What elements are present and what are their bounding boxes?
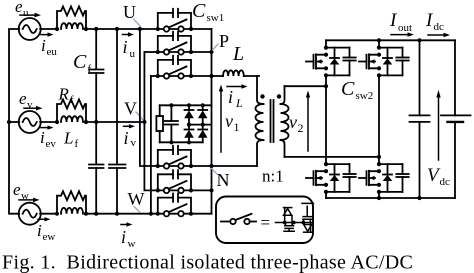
node w W-bus [149,212,153,216]
svg-text:i: i [124,128,129,148]
inductor L [212,70,260,76]
MOSFET cell Q4 [359,162,409,194]
battery V_dc [441,40,471,198]
arrow v1 [219,85,240,153]
wire clamp mid rail [189,124,212,126]
arrow i_ew [37,217,55,243]
svg-text:V: V [124,99,137,119]
clamp resistor [156,105,163,142]
svg-text:e: e [13,180,21,199]
arrow i_eu [41,32,57,58]
wire U drop to row4 [140,29,158,166]
arrow i_L [227,84,248,110]
svg-text:ev: ev [46,138,57,150]
svg-text:dc: dc [440,176,451,188]
wire secondary top [285,85,327,87]
svg-text:C: C [192,0,206,22]
label node W [128,189,145,212]
label I_out with arrow [389,10,414,37]
svg-text:I: I [389,10,398,31]
node N row5 [209,188,213,192]
label node V [124,99,143,121]
arrow V_dc [427,90,450,188]
node clamp top D2 [201,103,205,107]
node top bus legB [377,38,381,42]
svg-text:C: C [73,51,87,73]
node u U-drop [138,27,142,31]
clamp diode D2 [198,105,208,124]
wire leg B [378,40,380,47]
node N row4 [209,164,213,168]
svg-text:L: L [235,96,243,110]
svg-text:N: N [217,170,230,190]
capacitor DC output [410,40,430,198]
label P [213,31,230,51]
switch cell S1 (U-P) [156,9,212,32]
node transformer dot primary [260,94,264,98]
svg-text:f: f [70,94,74,106]
label N [212,169,230,191]
wire P-N bus vertical [211,29,213,214]
svg-text:eu: eu [47,46,58,58]
label R_f [58,85,75,107]
wire row3 left [151,75,158,77]
label L_f [63,129,79,151]
wire neutral stub v [9,121,19,123]
clamp rail bottom [160,141,203,143]
wire w source to filter [40,213,57,215]
svg-text:i: i [121,227,126,247]
node w Cf2 [94,212,98,216]
node clamp mid left [187,123,191,127]
wire W bus row3 to w line [150,76,152,214]
node bottom bus legB [377,196,381,200]
source e_u [19,18,41,40]
svg-text:R: R [58,85,70,104]
arrow i_ev [40,125,56,150]
source e_v [19,111,41,133]
wire primary return [212,165,258,167]
label e_w with polarity arrow [13,180,40,202]
svg-text:2: 2 [298,121,304,135]
wire leg A [325,40,327,47]
capacitor Cf u-v [89,29,104,122]
wire V bus row2 to row5 [144,52,157,190]
svg-text:w: w [128,238,136,250]
MOSFET cell Q2 [359,46,409,78]
svg-text:L: L [63,129,73,148]
node v Cf1 [94,120,98,124]
switch cell S6 (W-N) [156,194,212,217]
resistor-inductor filter v [55,100,88,125]
svg-text:u: u [130,48,136,60]
wire v line to matrix [86,121,144,123]
wire u source to filter [40,28,57,30]
source e_w [19,203,41,225]
label C_sw2 [341,78,373,102]
clamp rail top [160,104,212,106]
wire v source to filter [40,121,57,123]
node clamp bottom D3 [187,140,191,144]
node bottom bus cap [417,196,421,200]
node clamp top D1 [187,103,191,107]
svg-text:Fig. 1. Bidirectional isolate: Fig. 1. Bidirectional isolated three-pha… [2,252,413,273]
switch cell S4 (U-N) [156,146,212,169]
node clamp top C [169,103,173,107]
arrow i_w [121,222,136,250]
clamp diode D4 [198,125,208,143]
svg-text:v: v [289,112,297,132]
capacitor Cf u-w [109,29,126,214]
wire w line to matrix [86,213,158,215]
svg-text:i: i [228,87,233,107]
clamp diode D3 [184,125,194,143]
clamp capacitor [165,105,178,142]
transformer primary winding [256,76,264,166]
node P row3 [209,74,213,78]
svg-text:sw1: sw1 [207,12,225,24]
svg-text:i: i [41,36,46,55]
wire DC bottom bus [326,197,455,199]
label C_f [73,51,92,75]
svg-text:W: W [128,189,145,209]
label node U [123,2,141,27]
svg-text:L: L [232,43,244,65]
node P row2 [209,50,213,54]
svg-text:sw2: sw2 [356,90,374,102]
transformer core [271,100,274,142]
svg-text:ew: ew [43,231,56,243]
node u Cf1 [94,27,98,31]
svg-text:i: i [40,128,45,147]
transformer secondary winding [281,86,289,157]
clamp diode D1 [184,105,194,124]
arrow i_v [124,124,137,149]
node u Cf3 [115,27,119,31]
svg-text:P: P [219,31,229,51]
label I_dc with arrow [425,10,450,37]
svg-text:1: 1 [234,120,240,134]
node clamp mid right [201,123,205,127]
resistor-inductor filter w [55,191,88,216]
node v V-bus [142,120,146,124]
switch cell S3 (W-P) [156,56,212,79]
svg-text:v: v [225,111,233,131]
wire DC top bus [326,39,455,41]
legend anti-series MOSFET pair [276,203,314,232]
label e_u with polarity arrow [15,0,41,19]
MOSFET cell Q3 [306,162,356,194]
wire u line to matrix [86,28,158,30]
node transformer dot secondary [277,94,281,98]
svg-text:v: v [27,99,33,111]
MOSFET cell Q1 [306,46,356,78]
svg-text:C: C [341,78,355,100]
arrow i_u [123,32,136,60]
svg-text:v: v [131,137,137,149]
legend box [216,197,313,244]
switch cell S2 (V-P) [156,32,212,55]
node legA secondary-top [324,84,328,88]
svg-text:f: f [88,63,92,75]
legend switch symbol [221,214,256,224]
svg-text:out: out [398,22,412,34]
svg-text:u: u [23,7,29,19]
wire secondary bottom [285,156,380,158]
switch cell S5 (V-N) [156,170,212,193]
label C_sw1 [192,0,224,24]
node top bus cap [417,38,421,42]
svg-text:e: e [19,89,27,108]
wire neutral bus left [9,29,19,214]
node clamp bottom C [169,140,173,144]
svg-text:=: = [261,213,271,232]
svg-text:dc: dc [434,21,445,33]
node legB secondary-bottom [377,155,381,159]
arrow v2 [289,91,310,152]
svg-text:f: f [75,138,79,150]
wire row2 left [144,51,157,53]
node neutral-v junction [7,120,11,124]
node w Cf3 [115,212,119,216]
svg-text:n:1: n:1 [262,167,284,186]
svg-text:e: e [15,0,23,16]
label e_v with polarity arrow [19,89,43,111]
svg-text:i: i [37,221,42,240]
resistor-inductor filter u [55,7,88,32]
capacitor Cf v-w [89,122,104,214]
svg-text:i: i [123,37,128,57]
